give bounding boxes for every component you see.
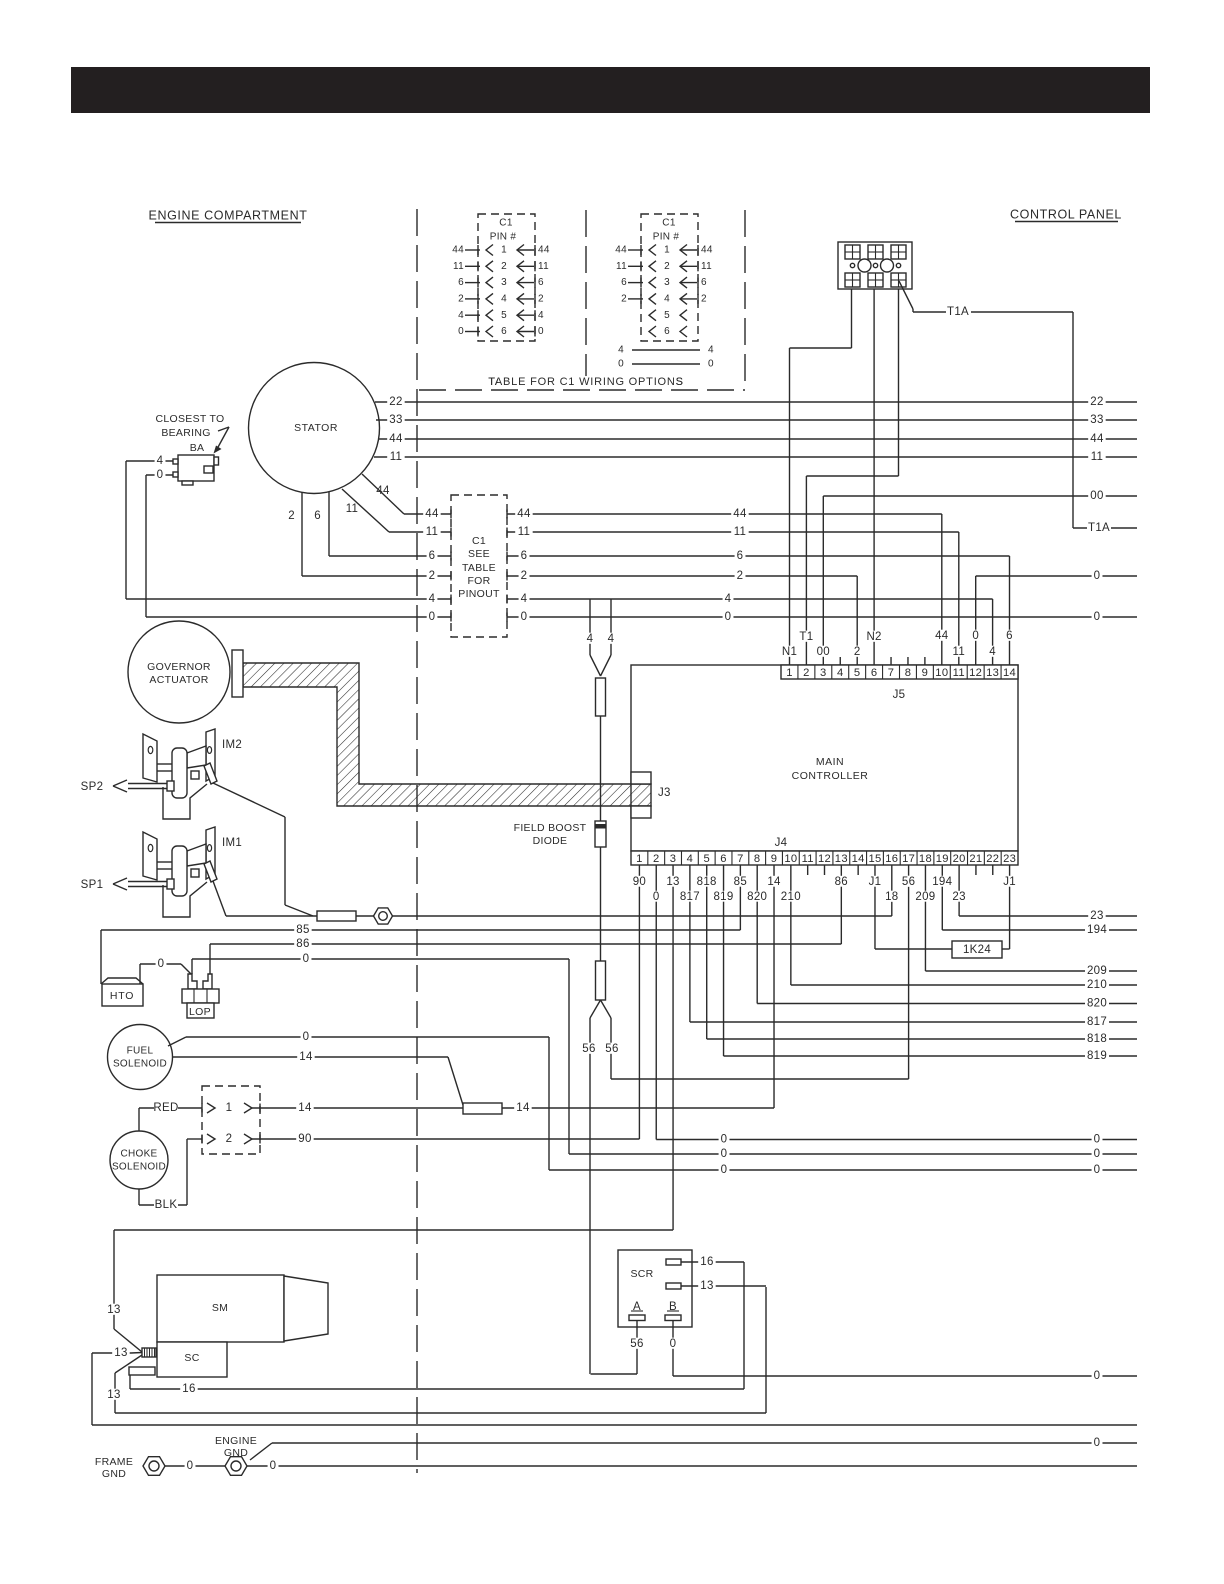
svg-text:0: 0 bbox=[1094, 1148, 1101, 1160]
wire T1A to edge bbox=[1073, 527, 1137, 529]
svg-text:4: 4 bbox=[708, 345, 714, 356]
svg-text:1: 1 bbox=[501, 245, 507, 256]
svg-text:0: 0 bbox=[1094, 570, 1101, 582]
wire 44 stator to control panel bbox=[378, 438, 1137, 440]
svg-text:14: 14 bbox=[1003, 667, 1016, 679]
svg-text:2: 2 bbox=[226, 1133, 233, 1145]
splice V bottom bbox=[590, 1000, 601, 1018]
svg-text:DIODE: DIODE bbox=[533, 835, 568, 847]
wire 209 J4-18 to edge bbox=[924, 865, 926, 971]
svg-text:0: 0 bbox=[429, 611, 436, 623]
connector J3 tabs bbox=[631, 772, 651, 784]
svg-text:44: 44 bbox=[389, 433, 403, 445]
svg-text:SP1: SP1 bbox=[81, 879, 104, 891]
svg-text:CONTROL PANEL: CONTROL PANEL bbox=[1010, 208, 1122, 222]
wire BLK choke bbox=[138, 1189, 140, 1205]
svg-text:44: 44 bbox=[425, 508, 439, 520]
label 0 right edge bbox=[1092, 611, 1103, 622]
wire 4 BA bbox=[126, 460, 173, 462]
svg-text:2: 2 bbox=[701, 294, 707, 305]
wire 0 C1 to edge bbox=[507, 616, 1137, 618]
wire resistor to nut bbox=[356, 915, 374, 917]
svg-text:00: 00 bbox=[1090, 490, 1103, 502]
label 2 at C1 left bbox=[427, 570, 438, 581]
svg-text:3: 3 bbox=[670, 853, 677, 865]
svg-text:11: 11 bbox=[518, 526, 531, 538]
svg-text:11: 11 bbox=[802, 853, 814, 865]
svg-text:0: 0 bbox=[721, 1164, 728, 1176]
svg-text:818: 818 bbox=[697, 876, 717, 888]
svg-text:SEE: SEE bbox=[468, 548, 490, 560]
svg-text:FIELD BOOST: FIELD BOOST bbox=[514, 822, 587, 834]
svg-text:4: 4 bbox=[687, 853, 694, 865]
label 4 drop right bbox=[606, 633, 617, 644]
svg-text:11: 11 bbox=[346, 503, 359, 515]
svg-text:0: 0 bbox=[618, 359, 624, 370]
svg-text:SM: SM bbox=[212, 1302, 228, 1314]
wire 0 J5-12 to edge bbox=[975, 576, 977, 665]
svg-text:6: 6 bbox=[458, 277, 464, 288]
J5 bare pin stubs bbox=[839, 657, 841, 665]
svg-text:BEARING: BEARING bbox=[161, 427, 210, 439]
svg-text:SOLENOID: SOLENOID bbox=[112, 1162, 166, 1173]
label N2 bbox=[865, 631, 882, 642]
svg-text:8: 8 bbox=[754, 853, 761, 865]
wire T1A from block bbox=[899, 281, 913, 309]
svg-text:4: 4 bbox=[608, 633, 615, 645]
relay 1K24 bbox=[952, 941, 1002, 958]
svg-text:10: 10 bbox=[784, 853, 797, 865]
wire 4 drop right bbox=[610, 599, 612, 655]
svg-text:J1: J1 bbox=[1003, 876, 1016, 888]
svg-text:6: 6 bbox=[701, 277, 707, 288]
label 56 left bbox=[580, 1043, 597, 1054]
svg-text:0: 0 bbox=[1094, 1164, 1101, 1176]
terminal block T1 bbox=[838, 242, 912, 289]
label 86 under J4-13 bbox=[833, 876, 850, 887]
svg-text:817: 817 bbox=[1087, 1016, 1107, 1028]
svg-text:0: 0 bbox=[1094, 1370, 1101, 1382]
svg-text:1: 1 bbox=[226, 1102, 233, 1114]
svg-text:0: 0 bbox=[1094, 1134, 1101, 1146]
svg-text:2: 2 bbox=[621, 294, 627, 305]
svg-text:6: 6 bbox=[871, 667, 878, 679]
svg-text:44: 44 bbox=[452, 245, 464, 256]
svg-text:6: 6 bbox=[720, 853, 727, 865]
stator bbox=[249, 363, 380, 494]
svg-text:12: 12 bbox=[818, 853, 831, 865]
svg-text:BA: BA bbox=[190, 442, 205, 454]
svg-text:PIN #: PIN # bbox=[653, 232, 680, 243]
svg-text:00: 00 bbox=[817, 646, 830, 658]
svg-text:194: 194 bbox=[1087, 924, 1107, 936]
wire 33 stator to control panel bbox=[376, 419, 1137, 421]
label 817 under J4-4 bbox=[678, 891, 702, 902]
svg-text:90: 90 bbox=[298, 1133, 311, 1145]
label 0 pin12 bbox=[970, 630, 981, 641]
svg-text:0: 0 bbox=[303, 1031, 310, 1043]
label 11 mid2 bbox=[731, 526, 748, 537]
starter contactor SC bbox=[157, 1342, 227, 1377]
wire T1 block left pin to J5-1 bbox=[851, 289, 853, 348]
sender HTO bbox=[101, 978, 143, 984]
label 44 mid2 bbox=[731, 508, 748, 519]
wire 0 fuel to edge bbox=[168, 1037, 186, 1046]
svg-text:44: 44 bbox=[1090, 433, 1104, 445]
wire 0 frame to engine gnd bbox=[165, 1465, 225, 1467]
wire 0 LOP to edge bbox=[191, 959, 193, 974]
label 18 under J4-16 bbox=[883, 891, 900, 902]
svg-text:2: 2 bbox=[501, 261, 507, 272]
svg-text:33: 33 bbox=[1090, 414, 1103, 426]
label 0 mid bbox=[519, 611, 530, 622]
label N1 bbox=[781, 646, 798, 657]
svg-text:819: 819 bbox=[1087, 1050, 1107, 1062]
label 44 at C1 left bbox=[423, 508, 440, 519]
svg-text:22: 22 bbox=[1090, 396, 1103, 408]
svg-text:13: 13 bbox=[107, 1304, 120, 1316]
connector row 1 bbox=[207, 1103, 215, 1113]
svg-text:22: 22 bbox=[389, 396, 402, 408]
connector choke dashed box bbox=[202, 1086, 260, 1154]
svg-text:44: 44 bbox=[376, 485, 390, 497]
svg-text:11: 11 bbox=[390, 451, 403, 463]
svg-text:56: 56 bbox=[582, 1043, 595, 1055]
label J1 under J4-23 bbox=[1001, 876, 1018, 887]
label 44 right bbox=[1088, 433, 1105, 444]
wire 194 J4-19 to edge bbox=[941, 865, 943, 930]
svg-text:5: 5 bbox=[501, 310, 507, 321]
svg-text:0: 0 bbox=[538, 326, 544, 337]
svg-text:44: 44 bbox=[538, 245, 550, 256]
governor actuator bbox=[128, 621, 230, 723]
svg-text:44: 44 bbox=[517, 508, 531, 520]
svg-text:2: 2 bbox=[664, 261, 670, 272]
SCR terminal 16 bbox=[666, 1259, 681, 1265]
label 6 at C1 left bbox=[427, 550, 438, 561]
label T1 bbox=[798, 631, 815, 642]
svg-text:0: 0 bbox=[458, 326, 464, 337]
svg-text:SCR: SCR bbox=[630, 1268, 653, 1280]
svg-text:FRAME: FRAME bbox=[95, 1456, 133, 1468]
wire 4 C1 to J5-13 bbox=[507, 598, 993, 600]
svg-text:J4: J4 bbox=[775, 837, 788, 849]
main controller box bbox=[631, 665, 1018, 851]
svg-text:SOLENOID: SOLENOID bbox=[113, 1059, 167, 1070]
svg-text:11: 11 bbox=[538, 261, 549, 272]
svg-text:6: 6 bbox=[314, 510, 321, 522]
sender LOP bbox=[188, 974, 197, 989]
label 11 left bbox=[387, 451, 404, 462]
J4 bare pin stubs bbox=[807, 865, 809, 875]
svg-text:23: 23 bbox=[1090, 910, 1103, 922]
label 2 mid bbox=[519, 570, 530, 581]
svg-text:4: 4 bbox=[837, 667, 844, 679]
wire 11 stator to control panel bbox=[374, 456, 1137, 458]
wire ignition to resistor bbox=[226, 915, 317, 917]
svg-text:4: 4 bbox=[989, 646, 996, 658]
wire 14 fuel to splice bbox=[172, 1056, 448, 1058]
terminal nut bbox=[374, 908, 393, 924]
wire 818 J4-5 to edge bbox=[706, 865, 708, 1039]
svg-text:0: 0 bbox=[972, 630, 979, 642]
svg-text:4: 4 bbox=[521, 593, 528, 605]
svg-text:IM2: IM2 bbox=[222, 739, 242, 751]
svg-text:14: 14 bbox=[852, 853, 865, 865]
svg-text:T1A: T1A bbox=[1088, 522, 1110, 534]
svg-text:209: 209 bbox=[915, 891, 935, 903]
svg-text:4: 4 bbox=[725, 593, 732, 605]
svg-text:0: 0 bbox=[303, 953, 310, 965]
wire 4 drop left bbox=[589, 599, 591, 655]
svg-text:13: 13 bbox=[107, 1389, 120, 1401]
wire 44 C1 to J5-10 bbox=[507, 513, 942, 515]
wire 13 branch c to SCR bbox=[115, 1355, 142, 1373]
svg-text:J5: J5 bbox=[893, 689, 906, 701]
svg-text:LOP: LOP bbox=[189, 1006, 211, 1018]
svg-text:MAIN: MAIN bbox=[816, 756, 844, 768]
label 6 mid bbox=[519, 550, 530, 561]
label 44 pin10 bbox=[933, 630, 950, 641]
svg-text:6: 6 bbox=[521, 550, 528, 562]
svg-text:CHOKE: CHOKE bbox=[120, 1149, 157, 1160]
svg-text:13: 13 bbox=[114, 1347, 127, 1359]
svg-text:0: 0 bbox=[670, 1338, 677, 1350]
wire 86 LOP to J4-13 bbox=[209, 944, 211, 974]
svg-text:ENGINE COMPARTMENT: ENGINE COMPARTMENT bbox=[149, 209, 308, 223]
svg-text:44: 44 bbox=[733, 508, 747, 520]
label overlay bbox=[498, 376, 674, 386]
svg-text:9: 9 bbox=[771, 853, 778, 865]
svg-text:7: 7 bbox=[737, 853, 744, 865]
label 194 under J4-19 bbox=[930, 876, 954, 887]
wire 820 J4-8 to edge bbox=[756, 865, 758, 1004]
crimp connector bbox=[142, 1348, 156, 1357]
svg-text:209: 209 bbox=[1087, 965, 1107, 977]
wire 2 stator down bbox=[301, 492, 303, 576]
svg-text:22: 22 bbox=[986, 853, 999, 865]
label 11 right bbox=[1088, 451, 1105, 462]
svg-text:2: 2 bbox=[653, 853, 660, 865]
svg-text:23: 23 bbox=[1003, 853, 1016, 865]
svg-text:5: 5 bbox=[664, 310, 670, 321]
label 33 left bbox=[387, 414, 404, 425]
svg-text:ACTUATOR: ACTUATOR bbox=[149, 674, 208, 686]
label 11 pin11 bbox=[950, 646, 967, 657]
label 4 at C1 left bbox=[427, 593, 438, 604]
options table bottom dashed line bbox=[419, 389, 745, 391]
svg-text:85: 85 bbox=[734, 876, 747, 888]
svg-text:6: 6 bbox=[664, 326, 670, 337]
svg-text:4: 4 bbox=[458, 310, 464, 321]
svg-text:16: 16 bbox=[885, 853, 898, 865]
label 0 mid2 bbox=[723, 611, 734, 622]
wire T1 block mid pin to J5-6 N2 bbox=[873, 289, 875, 665]
svg-text:N2: N2 bbox=[866, 631, 881, 643]
svg-text:11: 11 bbox=[1091, 451, 1104, 463]
svg-text:6: 6 bbox=[538, 277, 544, 288]
svg-text:C1: C1 bbox=[472, 535, 486, 547]
svg-text:23: 23 bbox=[952, 891, 965, 903]
wire 819 J4-6 to edge bbox=[723, 865, 725, 1056]
wire 85 HTO to J4-7 bbox=[100, 930, 102, 984]
svg-text:820: 820 bbox=[747, 891, 767, 903]
svg-text:56: 56 bbox=[630, 1338, 643, 1350]
wire diode to splice 56 bbox=[600, 847, 602, 961]
svg-text:13: 13 bbox=[835, 853, 848, 865]
wire 16 SC to SCR bbox=[129, 1375, 131, 1389]
wire T1 block right pin to J5-2 bbox=[898, 289, 900, 476]
connector J5 bbox=[781, 665, 1018, 679]
wire 0 SCR B to edge bbox=[672, 1321, 674, 1377]
wire 14 row1 to splice bbox=[215, 1107, 244, 1109]
svg-text:11: 11 bbox=[453, 261, 464, 272]
svg-text:20: 20 bbox=[953, 853, 966, 865]
svg-text:FUEL: FUEL bbox=[127, 1046, 154, 1057]
wire 44 stator diagonal bbox=[362, 474, 404, 514]
svg-text:56: 56 bbox=[902, 876, 915, 888]
svg-text:3: 3 bbox=[820, 667, 827, 679]
label 13 under J4-3 bbox=[664, 876, 681, 887]
svg-text:1: 1 bbox=[786, 667, 793, 679]
svg-text:3: 3 bbox=[664, 277, 670, 288]
svg-text:2: 2 bbox=[458, 294, 464, 305]
svg-text:33: 33 bbox=[389, 414, 402, 426]
svg-text:6: 6 bbox=[737, 550, 744, 562]
arrow to BA bbox=[218, 427, 229, 431]
wire IM2 output bbox=[213, 783, 285, 817]
hatched cable governor to J3 bbox=[243, 663, 651, 806]
wire 6 stator down bbox=[328, 492, 330, 556]
svg-text:1: 1 bbox=[664, 245, 670, 256]
wire 18 nut to J4-16 bbox=[393, 915, 892, 917]
ignition module IM1 bbox=[143, 832, 157, 880]
wire 22 stator to control panel bbox=[375, 401, 1137, 403]
svg-text:14: 14 bbox=[767, 876, 781, 888]
title bar bbox=[71, 67, 1150, 113]
label 33 right bbox=[1088, 414, 1105, 425]
svg-text:PIN #: PIN # bbox=[490, 232, 517, 243]
svg-text:0: 0 bbox=[270, 1460, 277, 1472]
svg-text:7: 7 bbox=[888, 667, 895, 679]
label 818 under J4-5 bbox=[695, 876, 719, 887]
options table right dashed line bbox=[744, 210, 746, 390]
frame ground bbox=[143, 1457, 165, 1476]
svg-text:18: 18 bbox=[885, 891, 898, 903]
svg-text:2: 2 bbox=[854, 646, 861, 658]
splice connector bbox=[596, 678, 606, 716]
label 4 pin13 bbox=[987, 646, 998, 657]
label 56 right bbox=[603, 1043, 620, 1054]
wire 14 splice to J4-9 bbox=[502, 1107, 774, 1109]
svg-text:1K24: 1K24 bbox=[963, 944, 991, 956]
svg-text:N1: N1 bbox=[782, 646, 797, 658]
label J1 under J4-15 bbox=[866, 876, 883, 887]
svg-text:13: 13 bbox=[986, 667, 999, 679]
option B jumper wire 4 bbox=[632, 349, 700, 351]
svg-text:0: 0 bbox=[721, 1134, 728, 1146]
svg-text:6: 6 bbox=[429, 550, 436, 562]
fuel solenoid bbox=[108, 1025, 173, 1090]
wire 1K24 to J4-23 bbox=[1002, 948, 1010, 950]
option B jumper wire 0 bbox=[632, 363, 700, 365]
label 44 mid bbox=[515, 508, 532, 519]
label 00 pin3 bbox=[815, 646, 832, 657]
wire RED choke bbox=[138, 1108, 140, 1131]
wire 11 stator diagonal bbox=[342, 489, 389, 532]
svg-text:GND: GND bbox=[224, 1447, 248, 1459]
svg-text:0: 0 bbox=[653, 891, 660, 903]
svg-text:14: 14 bbox=[299, 1051, 313, 1063]
connector row 2 bbox=[207, 1134, 215, 1144]
svg-text:CLOSEST TO: CLOSEST TO bbox=[156, 413, 225, 425]
wire 56 SCR A bbox=[636, 1321, 638, 1375]
wire 13 branch b bbox=[92, 1352, 131, 1354]
choke solenoid bbox=[110, 1131, 168, 1189]
connector C1 see table bbox=[451, 495, 507, 637]
component BA bbox=[178, 455, 214, 481]
splice connector 56 bbox=[596, 961, 606, 1000]
svg-text:STATOR: STATOR bbox=[294, 422, 338, 434]
svg-text:11: 11 bbox=[616, 261, 627, 272]
svg-text:817: 817 bbox=[680, 891, 700, 903]
C1 box wire ticks bbox=[450, 510, 452, 519]
svg-text:6: 6 bbox=[621, 277, 627, 288]
label 85 under J4-7 bbox=[732, 876, 749, 887]
wire splice to diode bbox=[600, 716, 602, 821]
svg-text:85: 85 bbox=[296, 924, 309, 936]
svg-text:PINOUT: PINOUT bbox=[458, 588, 500, 600]
svg-text:2: 2 bbox=[737, 570, 744, 582]
svg-text:ENGINE: ENGINE bbox=[215, 1435, 257, 1447]
label 0 at C1 left bbox=[427, 611, 438, 622]
label 22 left bbox=[387, 396, 404, 407]
svg-text:2: 2 bbox=[803, 667, 810, 679]
svg-text:4: 4 bbox=[501, 294, 507, 305]
svg-text:14: 14 bbox=[516, 1102, 530, 1114]
svg-text:210: 210 bbox=[781, 891, 801, 903]
svg-text:12: 12 bbox=[969, 667, 982, 679]
svg-text:4: 4 bbox=[618, 345, 624, 356]
wire IM1 output bbox=[213, 881, 226, 916]
svg-text:IM1: IM1 bbox=[222, 837, 242, 849]
wire 817 J4-4 to edge bbox=[689, 865, 691, 1022]
SCR terminal A bbox=[629, 1315, 645, 1321]
label 90 under J4-1 bbox=[631, 876, 648, 887]
svg-text:820: 820 bbox=[1087, 998, 1107, 1010]
label 6 mid2 bbox=[735, 550, 746, 561]
svg-text:11: 11 bbox=[734, 526, 747, 538]
svg-text:0: 0 bbox=[721, 1148, 728, 1160]
svg-text:0: 0 bbox=[1094, 1437, 1101, 1449]
svg-text:4: 4 bbox=[538, 310, 544, 321]
svg-text:TABLE: TABLE bbox=[462, 562, 496, 574]
label 14 under J4-9 bbox=[765, 876, 782, 887]
svg-text:11: 11 bbox=[701, 261, 712, 272]
label 2 pin5 bbox=[852, 646, 863, 657]
svg-text:1: 1 bbox=[636, 853, 643, 865]
svg-text:RED: RED bbox=[153, 1102, 178, 1114]
svg-text:2: 2 bbox=[429, 570, 436, 582]
svg-text:11: 11 bbox=[426, 526, 439, 538]
svg-text:SP2: SP2 bbox=[81, 781, 104, 793]
svg-text:T1A: T1A bbox=[947, 306, 969, 318]
label 56 under J4-17 bbox=[900, 876, 917, 887]
wire 23 J4-20 to edge bbox=[958, 865, 960, 916]
svg-text:T1: T1 bbox=[799, 631, 813, 643]
svg-text:GOVERNOR: GOVERNOR bbox=[147, 661, 211, 673]
boundary dashed line engine/control bbox=[416, 209, 418, 1473]
